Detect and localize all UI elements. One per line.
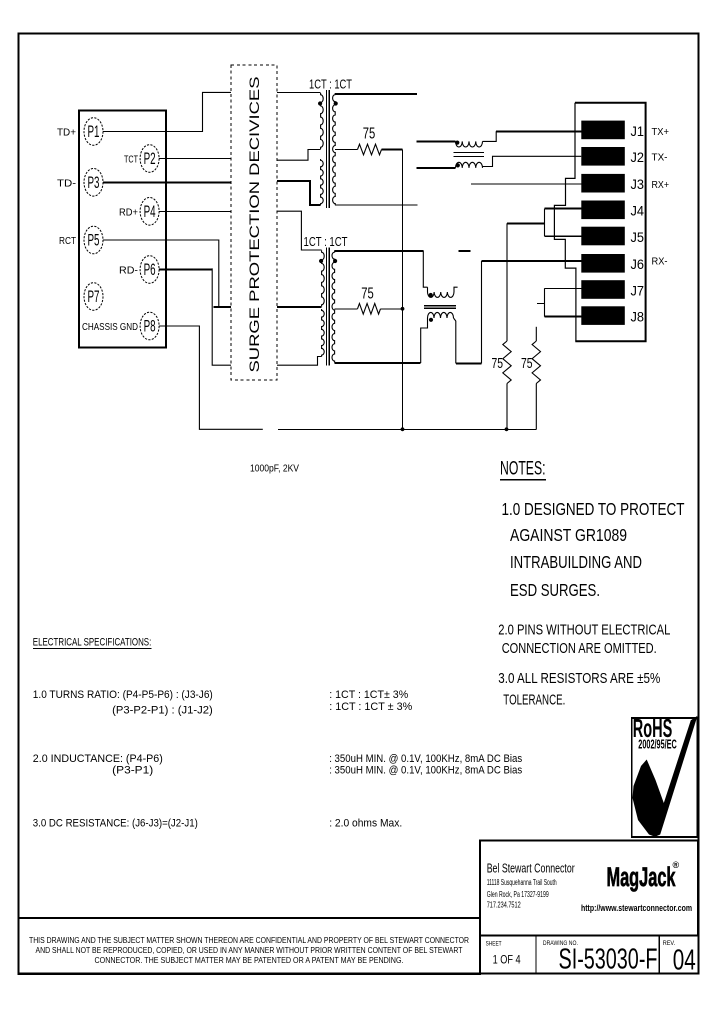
svg-text:SI-53030-F: SI-53030-F <box>559 944 658 976</box>
svg-text:J8: J8 <box>631 309 645 325</box>
svg-text:TX+: TX+ <box>652 126 670 138</box>
svg-text:INTRABUILDING AND: INTRABUILDING AND <box>510 552 642 572</box>
svg-text:3.0 ALL RESISTORS ARE ±5%: 3.0 ALL RESISTORS ARE ±5% <box>498 670 660 687</box>
svg-text:J4: J4 <box>631 203 645 219</box>
svg-text:ELECTRICAL SPECIFICATIONS:: ELECTRICAL SPECIFICATIONS: <box>33 636 152 648</box>
svg-text:P6: P6 <box>144 261 156 279</box>
svg-text:RCT: RCT <box>59 235 76 247</box>
svg-text:RD-: RD- <box>119 265 139 277</box>
svg-text:P4: P4 <box>144 203 156 221</box>
svg-text:75: 75 <box>521 355 533 372</box>
svg-text:TOLERANCE.: TOLERANCE. <box>503 692 565 709</box>
svg-text:: 2.0 ohms Max.: : 2.0 ohms Max. <box>329 818 402 830</box>
svg-text:AGAINST GR1089: AGAINST GR1089 <box>510 525 627 545</box>
svg-text:(P3-P2-P1) : (J1-J2): (P3-P2-P1) : (J1-J2) <box>112 704 213 716</box>
svg-text:3.0 DC RESISTANCE: (J6-J3)=(J2: 3.0 DC RESISTANCE: (J6-J3)=(J2-J1) <box>33 818 198 830</box>
svg-text:2.0 PINS WITHOUT ELECTRICAL: 2.0 PINS WITHOUT ELECTRICAL <box>498 622 670 639</box>
svg-text:717.234.7512: 717.234.7512 <box>487 901 521 910</box>
svg-text:75: 75 <box>363 126 376 143</box>
svg-text:http://www.stewartconnector.co: http://www.stewartconnector.com <box>581 903 692 913</box>
svg-text:CHASSIS GND: CHASSIS GND <box>82 321 138 333</box>
svg-text:P3: P3 <box>88 174 100 192</box>
svg-text:Bel Stewart Connector: Bel Stewart Connector <box>487 862 575 876</box>
svg-text:J1: J1 <box>631 123 645 139</box>
svg-text:75: 75 <box>492 355 504 372</box>
svg-text:: 1CT : 1CT± 3%: : 1CT : 1CT± 3% <box>329 689 408 701</box>
svg-text:THIS DRAWING AND THE SUBJECT M: THIS DRAWING AND THE SUBJECT MATTER SHOW… <box>29 935 469 945</box>
svg-text:J3: J3 <box>631 176 645 192</box>
svg-text:TD+: TD+ <box>57 127 76 139</box>
svg-text:CONNECTOR. THE SUBJECT MATTER: CONNECTOR. THE SUBJECT MATTER MAY BE PAT… <box>95 955 404 965</box>
svg-text:(P3-P1): (P3-P1) <box>112 765 153 777</box>
svg-text:1 OF 4: 1 OF 4 <box>493 955 521 967</box>
svg-text:P7: P7 <box>88 288 100 306</box>
svg-text:04: 04 <box>673 945 696 977</box>
svg-text:P1: P1 <box>88 123 100 141</box>
svg-text:75: 75 <box>361 286 374 303</box>
svg-text:1000pF, 2KV: 1000pF, 2KV <box>250 463 299 475</box>
svg-text:MagJack: MagJack <box>607 862 677 892</box>
svg-text:TD-: TD- <box>57 177 77 189</box>
svg-text:RX-: RX- <box>652 256 668 268</box>
svg-text:AND SHALL NOT BE REPRODUCED, C: AND SHALL NOT BE REPRODUCED, COPIED, OR … <box>36 945 464 955</box>
svg-text:®: ® <box>673 860 680 870</box>
svg-text:P5: P5 <box>88 232 100 250</box>
svg-text:RD+: RD+ <box>119 206 138 218</box>
svg-text:P2: P2 <box>144 150 156 168</box>
svg-text:RX+: RX+ <box>652 179 670 191</box>
svg-text:SHEET: SHEET <box>486 941 502 948</box>
svg-text:2002/95/EC: 2002/95/EC <box>638 738 677 752</box>
svg-text:P8: P8 <box>144 318 156 336</box>
svg-text:ESD SURGES.: ESD SURGES. <box>510 580 600 600</box>
svg-text:1CT : 1CT: 1CT : 1CT <box>304 234 348 249</box>
svg-text:11118 Susquehanna Trail South: 11118 Susquehanna Trail South <box>487 878 557 887</box>
svg-text:: 1CT : 1CT ± 3%: : 1CT : 1CT ± 3% <box>329 701 412 713</box>
svg-text:1.0 DESIGNED TO PROTECT: 1.0 DESIGNED TO PROTECT <box>502 499 685 519</box>
svg-text:1.0 TURNS RATIO: (P4-P5-P6) :: 1.0 TURNS RATIO: (P4-P5-P6) : (J3-J6) <box>33 689 213 701</box>
svg-text:Glen Rock, Pa 17327-9199: Glen Rock, Pa 17327-9199 <box>487 890 549 899</box>
svg-text:: 350uH MIN. @ 0.1V, 100KHz, 8: : 350uH MIN. @ 0.1V, 100KHz, 8mA DC Bias <box>329 765 523 777</box>
svg-text:J5: J5 <box>631 229 645 245</box>
svg-text:: 350uH MIN. @ 0.1V, 100KHz, 8: : 350uH MIN. @ 0.1V, 100KHz, 8mA DC Bias <box>329 753 523 765</box>
svg-text:NOTES:: NOTES: <box>500 459 546 480</box>
svg-text:SURGE PROTECTION DECIVICES: SURGE PROTECTION DECIVICES <box>246 77 262 373</box>
svg-text:2.0 INDUCTANCE: (P4-P6): 2.0 INDUCTANCE: (P4-P6) <box>33 753 163 765</box>
svg-text:J2: J2 <box>631 149 645 165</box>
svg-text:1CT : 1CT: 1CT : 1CT <box>309 77 352 92</box>
svg-text:TCT: TCT <box>124 154 138 166</box>
svg-text:CONNECTION ARE OMITTED.: CONNECTION ARE OMITTED. <box>502 640 657 657</box>
svg-text:J7: J7 <box>631 282 645 298</box>
svg-text:TX-: TX- <box>652 151 668 163</box>
svg-text:J6: J6 <box>631 256 645 272</box>
